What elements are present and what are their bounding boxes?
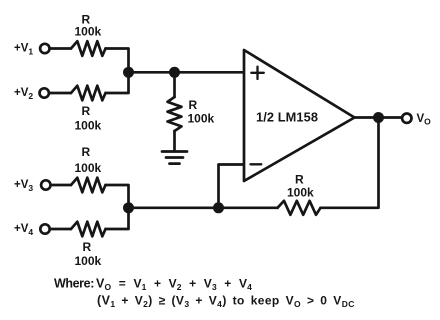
svg-text:Where: VO = V1 + V2 + V3 + V4: Where: VO = V1 + V2 + V3 + V4 — [54, 277, 252, 293]
svg-text:R: R — [82, 104, 91, 118]
input terminal +V4 — [40, 224, 49, 233]
node B junction — [169, 67, 180, 78]
node C junction (V3+V4 sum) — [123, 202, 134, 213]
svg-text:VO: VO — [417, 113, 432, 127]
svg-text:R: R — [83, 240, 92, 254]
svg-text:100k: 100k — [75, 25, 102, 39]
wire R4 to node C — [106, 185, 129, 208]
resistor R2 — [71, 86, 106, 101]
wire R1 to node A — [106, 49, 129, 73]
wire op-amp output to terminal — [355, 116, 402, 119]
wire V2 terminal to R2 — [49, 92, 71, 95]
svg-text:100k: 100k — [75, 119, 102, 133]
svg-text:R: R — [82, 145, 91, 159]
resistor R5 — [71, 222, 106, 237]
wire node D to feedback resistor R6 — [219, 206, 278, 209]
wire node C to node D — [129, 206, 219, 209]
wire V3 terminal to R4 — [51, 184, 71, 187]
op-amp plus sign — [251, 67, 263, 79]
svg-text:1/2 LM158: 1/2 LM158 — [256, 110, 318, 125]
wire node D to op-amp inverting input — [219, 165, 245, 208]
svg-text:(V1 + V2) ≥ (V3 + V4) to keep: (V1 + V2) ≥ (V3 + V4) to keep VO > 0 VDC — [97, 294, 355, 310]
wire R6 to output node — [321, 118, 379, 208]
op-amp minus sign — [251, 163, 262, 165]
resistor R4 — [71, 178, 106, 193]
svg-text:+V2: +V2 — [14, 87, 33, 101]
wire node B to R3 — [173, 72, 176, 97]
wire R2 to node A — [106, 72, 129, 93]
svg-text:100k: 100k — [75, 254, 102, 268]
output terminal VO — [402, 114, 411, 123]
svg-text:R: R — [295, 173, 304, 187]
input terminal +V1 — [40, 44, 49, 53]
svg-text:+V3: +V3 — [14, 179, 33, 193]
wire V1 terminal to R1 — [50, 47, 71, 50]
node A junction (V1+V2 sum) — [123, 67, 134, 78]
feedback resistor R6 — [278, 201, 321, 215]
resistor R1 — [71, 41, 106, 56]
svg-text:100k: 100k — [75, 161, 102, 175]
input terminal +V2 — [40, 88, 49, 97]
ground — [162, 152, 187, 164]
svg-text:100k: 100k — [188, 112, 215, 126]
wire R3 to ground — [173, 131, 176, 150]
node D junction — [213, 202, 224, 213]
svg-text:100k: 100k — [287, 186, 314, 200]
wire R5 to node C — [106, 208, 129, 229]
wire node A to op-amp noninverting input — [129, 71, 245, 74]
op-amp U1 1/2 LM158 — [244, 50, 355, 181]
svg-text:+V1: +V1 — [14, 43, 33, 57]
wire V4 terminal to R5 — [50, 228, 71, 231]
svg-text:+V4: +V4 — [14, 223, 33, 237]
resistor R3 (to ground) — [168, 97, 182, 131]
output node junction — [373, 112, 384, 123]
input terminal +V3 — [41, 180, 50, 189]
svg-text:R: R — [189, 98, 198, 112]
